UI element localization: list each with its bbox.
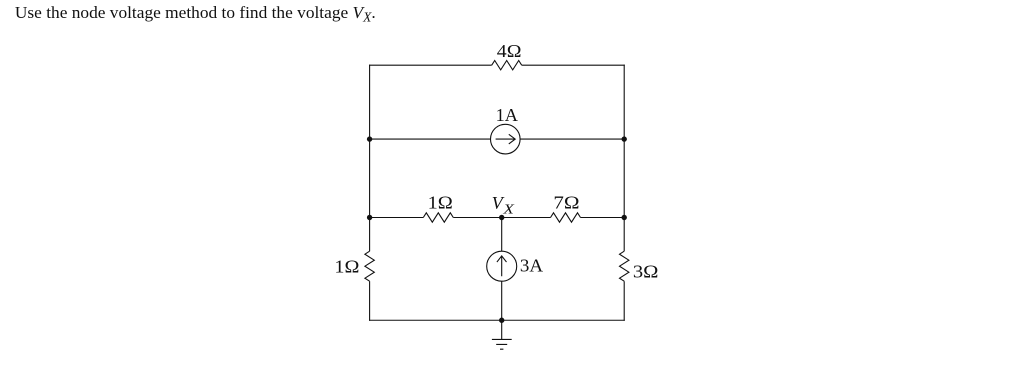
- wire row3 right segment: [581, 217, 625, 219]
- resistor R 1ohm middle zigzag: [423, 213, 453, 222]
- resistor R 4ohm zigzag: [492, 60, 522, 69]
- svg-text:4Ω: 4Ω: [497, 41, 522, 61]
- wire row2 left segment: [370, 138, 491, 140]
- resistor R 3ohm right vertical zigzag: [620, 251, 629, 281]
- svg-text:1Ω: 1Ω: [334, 256, 359, 276]
- wire row2 right segment: [520, 138, 624, 140]
- svg-text:Use the node voltage method to: Use the node voltage method to find the …: [15, 3, 376, 25]
- ground symbol: [492, 320, 512, 349]
- current source I2 3A circle: [487, 251, 517, 281]
- node A (row2 left junction): [367, 136, 372, 141]
- wire top-right segment: [522, 64, 625, 66]
- node C (row3 left junction): [367, 215, 372, 220]
- current source I2 arrow up: [497, 256, 507, 276]
- svg-text:3A: 3A: [520, 255, 543, 275]
- wire right rail lower: [623, 281, 625, 321]
- svg-text:X: X: [502, 203, 514, 218]
- current source I1 arrow right: [496, 134, 516, 144]
- wire row3 left segment: [370, 217, 424, 219]
- svg-text:1Ω: 1Ω: [428, 193, 453, 213]
- resistor R 1ohm left vertical zigzag: [365, 251, 374, 281]
- wire left rail lower: [369, 281, 371, 321]
- node Vx (row3 middle junction): [499, 215, 504, 220]
- wire top-left segment: [369, 64, 492, 66]
- wire bottom: [369, 319, 625, 321]
- svg-text:1A: 1A: [496, 105, 518, 125]
- wire right rail upper: [623, 65, 625, 252]
- node D (row3 right junction): [622, 215, 627, 220]
- wire row3 middle segment: [453, 217, 550, 219]
- wire mid vertical upper: [501, 218, 503, 252]
- node B (row2 right junction): [622, 136, 627, 141]
- svg-text:7Ω: 7Ω: [553, 193, 579, 213]
- svg-text:3Ω: 3Ω: [633, 261, 659, 281]
- wire mid vertical lower: [501, 281, 503, 321]
- current source I1 1A circle: [491, 124, 521, 154]
- wire left rail upper: [369, 65, 371, 252]
- node ground (bottom middle junction): [499, 318, 504, 323]
- resistor R 7ohm zigzag: [551, 213, 581, 222]
